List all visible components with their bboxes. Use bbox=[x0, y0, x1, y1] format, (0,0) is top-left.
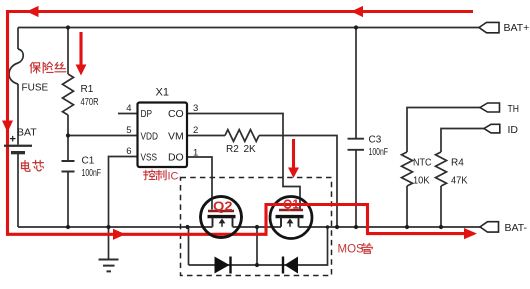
wire bottom bus right segment bbox=[299, 226, 481, 228]
wire mid node drop bbox=[256, 227, 258, 265]
svg-text:VDD: VDD bbox=[141, 130, 159, 142]
diode D1 bbox=[215, 257, 230, 274]
wire C3 top lead bbox=[355, 28, 357, 139]
label baoxiansi (fuse, red CJK) bbox=[30, 62, 66, 73]
fuse F1 bbox=[9, 49, 23, 84]
label dianxin (battery cell, red CJK) bbox=[22, 160, 44, 171]
battery cell BAT plus plate bbox=[4, 145, 32, 147]
label kongzhi IC (control IC, red CJK) bbox=[143, 170, 166, 180]
svg-text:CO: CO bbox=[168, 108, 184, 120]
red arrow into battery bbox=[2, 121, 13, 133]
mosfet Q1 legs bbox=[281, 217, 299, 227]
svg-text:ID: ID bbox=[508, 124, 519, 136]
terminal flag TH bbox=[480, 103, 500, 112]
red arrow bottom left bbox=[113, 229, 126, 240]
mosfet Q2 circle overlay (drawn over red wire) bbox=[201, 197, 242, 238]
svg-text:R4: R4 bbox=[451, 158, 464, 169]
svg-text:47K: 47K bbox=[451, 176, 468, 187]
svg-text:MOS: MOS bbox=[338, 244, 365, 256]
diode D2 bbox=[285, 257, 299, 274]
svg-text:Q1: Q1 bbox=[283, 197, 299, 212]
wire VM left lead bbox=[187, 135, 225, 137]
wire VSS net bbox=[109, 157, 138, 259]
mosfet Q2 gate bar bbox=[208, 210, 234, 212]
svg-text:NTC: NTC bbox=[413, 158, 432, 169]
svg-text:FUSE: FUSE bbox=[22, 83, 49, 94]
wire ID net bbox=[441, 129, 484, 153]
mosfet Q2 circle bbox=[201, 197, 242, 238]
wire diode row bbox=[189, 227, 328, 265]
red current path main loop bbox=[8, 12, 475, 235]
resistor R4 bbox=[436, 152, 447, 186]
resistor R1 bbox=[63, 74, 74, 115]
svg-text:BAT-: BAT- bbox=[505, 222, 528, 234]
svg-text:2: 2 bbox=[193, 125, 198, 136]
dashed box MOS area bbox=[181, 178, 332, 276]
svg-text:4: 4 bbox=[126, 103, 131, 114]
terminal flag BAT- bbox=[480, 222, 499, 232]
mosfet Q1 arrow bbox=[289, 222, 291, 227]
capacitor C1 bbox=[62, 161, 75, 172]
wire R4 bottom lead bbox=[440, 186, 442, 227]
red arrow top right bbox=[351, 6, 363, 17]
svg-text:DP: DP bbox=[141, 108, 153, 120]
svg-text:3: 3 bbox=[193, 103, 198, 114]
svg-text:IC: IC bbox=[168, 171, 179, 183]
svg-text:+: + bbox=[10, 134, 16, 146]
wire R1 to C1 node bbox=[67, 115, 69, 161]
svg-text:Q2: Q2 bbox=[213, 199, 233, 214]
wire TH net bbox=[407, 108, 480, 153]
svg-text:C1: C1 bbox=[82, 156, 95, 167]
svg-text:R1: R1 bbox=[81, 84, 94, 95]
mosfet Q1 circle bbox=[270, 197, 312, 239]
svg-text:R2: R2 bbox=[226, 144, 239, 155]
svg-text:2K: 2K bbox=[244, 144, 257, 155]
wire fuse top lead bbox=[17, 28, 19, 50]
IC U1 body bbox=[138, 103, 188, 168]
wire fuse to battery bbox=[17, 84, 19, 145]
mosfet Q2 legs bbox=[213, 217, 233, 227]
svg-text:1: 1 bbox=[193, 148, 198, 159]
svg-text:470R: 470R bbox=[81, 97, 99, 108]
red arrow top left bbox=[27, 6, 39, 17]
svg-text:VSS: VSS bbox=[141, 151, 158, 163]
label MOS guan (MOS tube, red CJK) bbox=[362, 243, 373, 253]
svg-text:BAT: BAT bbox=[17, 127, 37, 139]
red arrow into Q1 bbox=[292, 139, 295, 169]
mosfet Q2 channel bar bbox=[208, 215, 236, 218]
battery cell BAT minus plate bbox=[11, 151, 25, 154]
svg-text:TH: TH bbox=[508, 103, 520, 115]
wire DP stub pin4 bbox=[118, 113, 138, 115]
svg-text:X1: X1 bbox=[156, 87, 169, 99]
mosfet Q1 channel bar bbox=[276, 215, 304, 218]
wire VDD net bbox=[68, 135, 138, 137]
resistor NTC bbox=[402, 152, 413, 186]
red arrow to BAT- bbox=[464, 228, 477, 239]
wire VM net to BAT- bus bbox=[259, 136, 337, 228]
mosfet Q2 arrow bbox=[221, 222, 223, 227]
capacitor C3 bbox=[348, 139, 365, 150]
wire R1 top lead bbox=[67, 28, 69, 75]
svg-text:BAT+: BAT+ bbox=[504, 22, 530, 34]
svg-text:DO: DO bbox=[168, 151, 184, 163]
wire DO net to Q2 gate bbox=[187, 157, 212, 210]
wire BAT+ top bus bbox=[18, 27, 479, 29]
svg-text:6: 6 bbox=[126, 146, 131, 157]
wire C1 bottom lead bbox=[67, 172, 69, 227]
red arrow through R1 bbox=[79, 32, 82, 66]
mosfet Q1 gate bar bbox=[279, 209, 303, 211]
ground bbox=[99, 260, 119, 272]
wire CO net to Q1 gate bbox=[187, 114, 300, 210]
terminal flag BAT+ bbox=[479, 22, 499, 32]
resistor R2 bbox=[225, 130, 259, 142]
wire bottom bus left segment bbox=[18, 226, 213, 228]
wire battery to bottom bus bbox=[17, 154, 19, 227]
wire C3 bottom lead bbox=[355, 151, 357, 228]
svg-text:100nF: 100nF bbox=[369, 147, 389, 158]
terminal flag ID bbox=[484, 124, 500, 133]
battery cell plates overlay bbox=[4, 145, 32, 147]
svg-text:C3: C3 bbox=[369, 135, 382, 146]
svg-text:5: 5 bbox=[126, 125, 131, 136]
wire Q2 drain drop to diode row bbox=[188, 227, 190, 265]
svg-text:VM: VM bbox=[168, 130, 184, 142]
svg-text:10K: 10K bbox=[413, 176, 430, 187]
wire bottom bus middle segment bbox=[233, 226, 282, 228]
wire NTC bottom lead bbox=[406, 186, 408, 227]
svg-text:100nF: 100nF bbox=[82, 168, 102, 179]
